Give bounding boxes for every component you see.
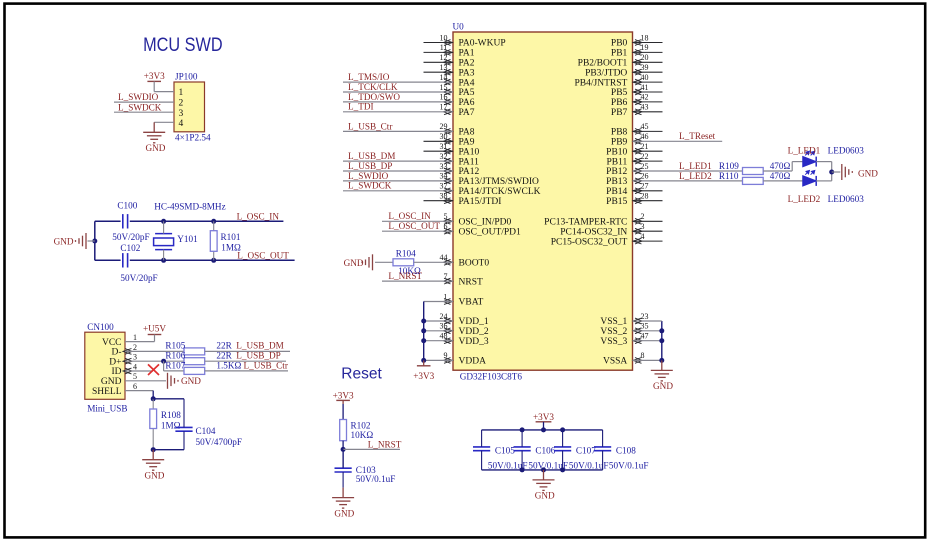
junction L_NRST — [341, 447, 346, 452]
junction bottom bus — [520, 467, 525, 472]
U0 pin 33 direction glyph — [444, 168, 453, 174]
svg-text:PA13/JTMS/SWDIO: PA13/JTMS/SWDIO — [459, 177, 540, 187]
U0 pin 29 direction glyph — [444, 129, 453, 135]
svg-text:VCC: VCC — [102, 338, 122, 348]
U0 pin 28 direction glyph — [633, 198, 642, 204]
svg-text:PB0: PB0 — [611, 39, 628, 49]
resistor R110 — [743, 177, 764, 184]
U0 pin 24 direction glyph — [444, 318, 453, 324]
U0 pin 31 stub wire — [424, 150, 454, 152]
U0 pin 12 direction glyph — [444, 59, 453, 65]
wire +3V3 to R102 — [342, 400, 344, 404]
svg-text:3: 3 — [641, 222, 645, 231]
junction R101 bottom — [211, 258, 216, 263]
wire CN100 ID stub — [125, 370, 153, 372]
U0 pin 41 stub wire — [633, 91, 663, 93]
wire L_USB_DM to U0 pin 32 — [343, 160, 453, 162]
U0 pin 12 stub wire — [424, 61, 454, 63]
svg-text:2: 2 — [133, 343, 137, 352]
svg-text:PA7: PA7 — [459, 108, 475, 118]
svg-text:PA10: PA10 — [459, 147, 480, 157]
svg-text:C106: C106 — [535, 446, 555, 456]
svg-text:PB4/JNTRST: PB4/JNTRST — [575, 78, 628, 88]
resistor R102 — [340, 420, 347, 441]
svg-text:R105: R105 — [165, 341, 185, 351]
capacitor C104 — [175, 427, 192, 431]
svg-text:GND: GND — [653, 381, 673, 391]
ground GND at C103 — [332, 488, 354, 509]
wire JP100 pin 4 to ground — [154, 121, 174, 123]
wire L_TDI to U0 pin 17 — [343, 111, 453, 113]
U0 pin 2 stub wire — [633, 220, 663, 222]
U0 pin 32 direction glyph — [444, 158, 453, 164]
ground GND at VSS — [651, 360, 673, 381]
svg-text:OSC_IN/PD0: OSC_IN/PD0 — [459, 218, 512, 228]
U0 pin 40 direction glyph — [633, 79, 642, 85]
svg-text:NRST: NRST — [459, 277, 483, 287]
wire L_NRST to U0 pin 7 — [382, 280, 453, 282]
U0 pin 44 direction glyph — [444, 259, 453, 265]
svg-text:L_SWDCK: L_SWDCK — [118, 102, 162, 112]
svg-text:470Ω: 470Ω — [770, 161, 791, 171]
junction VSS rail — [659, 358, 664, 363]
wire CN100 SHELL down — [125, 390, 153, 392]
svg-text:8: 8 — [641, 351, 645, 360]
power +3V3 at VDDA — [423, 360, 425, 365]
svg-text:L_TDI: L_TDI — [348, 102, 374, 112]
wire L_TMS/IO to U0 pin 14 — [343, 81, 453, 83]
svg-text:PB15: PB15 — [606, 197, 627, 207]
wire +3V3 stem to top bus — [543, 422, 545, 430]
svg-text:R108: R108 — [161, 410, 181, 420]
U0 pin 45 direction glyph — [633, 129, 642, 135]
junction bottom bus — [541, 467, 546, 472]
U0 pin 14 direction glyph — [444, 79, 453, 85]
svg-text:L_LED2: L_LED2 — [788, 194, 821, 204]
junction Y101 bottom — [161, 258, 166, 263]
svg-text:+U5V: +U5V — [143, 324, 166, 334]
U0 pin 48 direction glyph — [444, 338, 453, 344]
svg-text:PA1: PA1 — [459, 49, 475, 59]
svg-text:VDD_3: VDD_3 — [459, 337, 489, 347]
svg-text:PA15/JTDI: PA15/JTDI — [459, 197, 502, 207]
CN100 pin 3 direction glyph — [123, 358, 132, 364]
resistor R107 — [184, 367, 205, 374]
svg-text:VSSA: VSSA — [603, 357, 627, 367]
svg-text:41: 41 — [641, 83, 649, 92]
svg-text:L_TReset: L_TReset — [679, 131, 716, 141]
U0 pin 22 stub wire — [633, 160, 663, 162]
svg-text:D-: D- — [111, 348, 121, 358]
U0 pin 43 direction glyph — [633, 109, 642, 115]
svg-text:C105: C105 — [495, 446, 515, 456]
wire R105 to L_USB_DM — [205, 350, 290, 352]
svg-text:JP100: JP100 — [175, 72, 198, 82]
svg-text:L_SWDIO: L_SWDIO — [118, 92, 159, 102]
svg-text:PC15-OSC32_OUT: PC15-OSC32_OUT — [551, 237, 628, 247]
svg-text:PC13-TAMPER-RTC: PC13-TAMPER-RTC — [544, 218, 627, 228]
svg-text:2: 2 — [179, 99, 184, 109]
crystal Y101 — [154, 234, 174, 250]
svg-text:L_OSC_OUT: L_OSC_OUT — [388, 221, 440, 231]
junction VDD rail — [421, 328, 426, 333]
svg-text:1: 1 — [179, 88, 184, 98]
svg-text:10KΩ: 10KΩ — [351, 430, 374, 440]
svg-text:+3V3: +3V3 — [413, 371, 434, 381]
U0 pin 2 direction glyph — [633, 218, 642, 224]
resistor R101 — [213, 221, 215, 230]
U0 pin 46 direction glyph — [633, 138, 642, 144]
svg-text:46: 46 — [641, 132, 649, 141]
svg-text:PA3: PA3 — [459, 68, 475, 78]
wire R110 to LED2 — [763, 180, 803, 182]
wire PB12 to R109 — [633, 170, 743, 172]
junction SHELL top — [151, 396, 156, 401]
wire +3V3 to JP100 pin 1 — [153, 81, 155, 91]
svg-text:BOOT0: BOOT0 — [459, 259, 490, 269]
resistor R108 — [152, 399, 154, 409]
diode LED2 — [803, 176, 816, 186]
U0 pin 23 direction glyph — [633, 318, 642, 324]
svg-text:R107: R107 — [165, 360, 185, 370]
svg-text:4×1P2.54: 4×1P2.54 — [175, 132, 211, 142]
wire L_OSC_OUT to U0 pin 6 — [382, 230, 453, 232]
svg-text:VDD_2: VDD_2 — [459, 327, 489, 337]
wire R102 to C103 — [342, 441, 344, 469]
CN100 pin 4 direction glyph — [123, 368, 132, 374]
junction D+ to R107 — [161, 359, 166, 364]
power +3V3 below VDDA — [417, 365, 431, 367]
svg-text:VSS_2: VSS_2 — [600, 327, 627, 337]
svg-text:GND: GND — [535, 491, 555, 501]
svg-text:D+: D+ — [109, 357, 121, 367]
U0 pin 19 direction glyph — [633, 50, 642, 56]
svg-text:28: 28 — [641, 192, 649, 201]
svg-text:L_LED1: L_LED1 — [788, 145, 821, 155]
wire VDD branch at y340.7 — [424, 340, 453, 342]
capacitor C102 — [123, 253, 128, 267]
svg-text:GND: GND — [858, 168, 878, 178]
resistor R109 — [743, 168, 764, 175]
U0 pin 1 direction glyph — [444, 299, 453, 305]
U0 pin 3 stub wire — [633, 230, 663, 232]
U0 pin 39 stub wire — [633, 71, 663, 73]
wire cap bank bottom bus — [482, 469, 603, 471]
svg-text:PB9: PB9 — [611, 138, 628, 148]
svg-text:VDDA: VDDA — [459, 357, 487, 367]
svg-text:27: 27 — [641, 182, 649, 191]
wire VBAT to VDD rail — [424, 301, 453, 303]
svg-text:39: 39 — [641, 63, 649, 72]
wire R107 to L_USB_Ctr — [205, 370, 288, 372]
svg-text:+3V3: +3V3 — [144, 71, 165, 81]
U0 pin 25 direction glyph — [633, 168, 642, 174]
svg-text:R104: R104 — [396, 249, 416, 259]
svg-text:PA9: PA9 — [459, 138, 475, 148]
U0 pin 21 direction glyph — [633, 148, 642, 154]
U0 pin 30 direction glyph — [444, 138, 453, 144]
svg-text:42: 42 — [641, 93, 649, 102]
svg-text:PA6: PA6 — [459, 98, 475, 108]
ground at LEDs — [842, 164, 853, 180]
U0 pin 43 stub wire — [633, 111, 663, 113]
U0 pin 18 stub wire — [633, 42, 663, 44]
svg-text:22: 22 — [641, 152, 649, 161]
U0 pin 13 stub wire — [424, 71, 454, 73]
wire L_USB_DP to U0 pin 33 — [343, 170, 453, 172]
U0 pin 10 stub wire — [424, 42, 454, 44]
U0 pin 31 direction glyph — [444, 148, 453, 154]
wire L_NRST — [343, 448, 400, 450]
svg-text:L_TMS/IO: L_TMS/IO — [348, 72, 390, 82]
svg-text:PA11: PA11 — [459, 157, 480, 167]
U0 pin 6 direction glyph — [444, 228, 453, 234]
svg-text:L_USB_DM: L_USB_DM — [348, 151, 395, 161]
wire ground to R104 — [375, 261, 393, 263]
U0 pin 9 direction glyph — [444, 358, 453, 364]
wire L_TCK/CLK to U0 pin 15 — [343, 91, 453, 93]
svg-text:3: 3 — [179, 109, 184, 119]
wire VSS branch at y340.7 — [633, 340, 662, 342]
svg-text:PB10: PB10 — [606, 147, 627, 157]
svg-text:GND: GND — [181, 376, 201, 386]
U0 pin 37 direction glyph — [444, 188, 453, 194]
svg-text:L_USB_Ctr: L_USB_Ctr — [348, 121, 392, 131]
junction bottom bus — [560, 467, 565, 472]
wire cap bank top bus — [482, 429, 603, 431]
svg-text:6: 6 — [133, 382, 137, 391]
wire L_USB_Ctr to U0 pin 29 — [343, 130, 453, 132]
svg-text:43: 43 — [641, 103, 649, 112]
junction top bus — [520, 427, 525, 432]
svg-text:PA4: PA4 — [459, 78, 475, 88]
svg-text:4: 4 — [179, 119, 184, 129]
svg-text:PB8: PB8 — [611, 128, 628, 138]
capacitor C106 — [514, 447, 531, 451]
U0 pin 10 direction glyph — [444, 40, 453, 46]
U0 pin 3 direction glyph — [633, 228, 642, 234]
wire junction to LED ground — [832, 171, 841, 173]
wire SHELL branch to C104 — [153, 398, 184, 400]
svg-text:Mini_USB: Mini_USB — [87, 403, 127, 413]
svg-text:PB7: PB7 — [611, 108, 628, 118]
svg-text:Y101: Y101 — [177, 234, 198, 244]
svg-text:GD32F103C8T6: GD32F103C8T6 — [460, 371, 523, 381]
resistor R104 — [393, 259, 414, 266]
svg-text:R102: R102 — [351, 420, 371, 430]
wire VSS branch at y360.4 — [633, 359, 662, 361]
U0 pin 4 direction glyph — [633, 238, 642, 244]
U0 pin 20 stub wire — [633, 61, 663, 63]
wire PB9 to L_TReset — [633, 140, 723, 142]
svg-text:PB14: PB14 — [606, 187, 627, 197]
junction LED cathodes — [829, 170, 834, 175]
svg-text:C100: C100 — [117, 201, 137, 211]
svg-text:35: 35 — [641, 322, 649, 331]
svg-text:GND: GND — [334, 508, 354, 518]
svg-text:PA14/JTCK/SWCLK: PA14/JTCK/SWCLK — [459, 187, 541, 197]
svg-text:VBAT: VBAT — [459, 298, 484, 308]
svg-text:L_NRST: L_NRST — [388, 271, 422, 281]
svg-text:1: 1 — [133, 333, 137, 342]
svg-text:4: 4 — [133, 362, 137, 371]
svg-text:SHELL: SHELL — [92, 387, 122, 397]
svg-text:PB6: PB6 — [611, 98, 628, 108]
wire left vertical between C100 and C102 — [94, 221, 96, 260]
ground symbol at BOOT0 — [362, 254, 373, 270]
junction Y101 top — [161, 219, 166, 224]
svg-text:L_LED2: L_LED2 — [679, 171, 712, 181]
svg-text:L_USB_Ctr: L_USB_Ctr — [244, 360, 288, 370]
wire L_OSC_IN to U0 pin 5 — [382, 220, 453, 222]
svg-text:21: 21 — [641, 142, 649, 151]
U0 pin 35 direction glyph — [633, 328, 642, 334]
wire VSS vertical rail — [661, 321, 663, 360]
U0 pin 22 direction glyph — [633, 158, 642, 164]
svg-text:GND: GND — [344, 258, 364, 268]
U0 pin 30 stub wire — [424, 140, 454, 142]
U0 pin 47 direction glyph — [633, 338, 642, 344]
svg-text:PA5: PA5 — [459, 88, 475, 98]
wire C104 bottom to R108 bottom — [153, 449, 184, 451]
svg-text:R110: R110 — [719, 171, 739, 181]
no-connect X on ID pin — [148, 364, 159, 375]
U0 pin 7 direction glyph — [444, 278, 453, 284]
svg-text:L_TDO/SWO: L_TDO/SWO — [348, 92, 400, 102]
svg-text:C102: C102 — [120, 243, 140, 253]
capacitor C108 — [594, 447, 611, 451]
svg-text:22R: 22R — [216, 341, 232, 351]
wire R106 to L_USB_DP — [205, 360, 286, 362]
svg-text:50V/20pF: 50V/20pF — [120, 273, 157, 283]
svg-text:26: 26 — [641, 172, 649, 181]
U0 pin 27 direction glyph — [633, 188, 642, 194]
capacitor C105 — [473, 447, 490, 451]
wire CN100 D+ to R106 — [125, 360, 184, 362]
svg-text:GND: GND — [101, 377, 122, 387]
svg-text:GND: GND — [145, 143, 165, 153]
power +3V3 — [336, 399, 350, 401]
ground GND at JP100 — [143, 122, 165, 143]
junction R101 top — [211, 219, 216, 224]
svg-text:19: 19 — [641, 43, 649, 52]
svg-text:18: 18 — [641, 33, 649, 42]
wire LED2 to common junction — [816, 180, 832, 182]
svg-text:L_USB_DM: L_USB_DM — [236, 341, 283, 351]
svg-text:PB1: PB1 — [611, 49, 628, 59]
wire CN100 VCC to +U5V — [125, 341, 155, 343]
svg-text:LED0603: LED0603 — [828, 145, 865, 155]
svg-text:C104: C104 — [196, 426, 216, 436]
svg-text:2: 2 — [641, 212, 645, 221]
svg-text:L_NRST: L_NRST — [368, 440, 402, 450]
svg-text:R109: R109 — [719, 161, 739, 171]
svg-text:Reset: Reset — [341, 365, 382, 382]
svg-text:1.5KΩ: 1.5KΩ — [216, 360, 241, 370]
capacitor C100 — [123, 214, 128, 228]
svg-text:C108: C108 — [616, 446, 636, 456]
power +3V3 — [536, 421, 552, 423]
wire VDD vertical rail — [423, 302, 425, 361]
wire D+ junction down to R107 — [163, 361, 165, 371]
U0 pin 15 direction glyph — [444, 89, 453, 95]
U0 pin 26 direction glyph — [633, 178, 642, 184]
svg-text:VSS_3: VSS_3 — [600, 337, 627, 347]
wire VDD branch at y360.4 — [424, 359, 453, 361]
svg-text:PA8: PA8 — [459, 128, 475, 138]
U0 pin 45 stub wire — [633, 130, 663, 132]
svg-text:20: 20 — [641, 53, 649, 62]
svg-text:MCU SWD: MCU SWD — [143, 35, 223, 56]
svg-text:50V/20pF: 50V/20pF — [112, 232, 149, 242]
svg-text:PB3/JTDO: PB3/JTDO — [585, 68, 627, 78]
svg-text:CN100: CN100 — [87, 322, 114, 332]
svg-text:R106: R106 — [165, 351, 185, 361]
svg-text:PB5: PB5 — [611, 88, 628, 98]
svg-text:PA0-WKUP: PA0-WKUP — [459, 39, 506, 49]
U0 pin 20 direction glyph — [633, 59, 642, 65]
svg-text:GND: GND — [54, 236, 74, 246]
U0 pin 39 direction glyph — [633, 69, 642, 75]
U0 pin 34 direction glyph — [444, 178, 453, 184]
svg-text:L_LED1: L_LED1 — [679, 161, 712, 171]
svg-text:4: 4 — [641, 232, 645, 241]
wire L_SWDCK to U0 pin 37 — [343, 190, 453, 192]
wire CN100 GND pin to ground — [125, 380, 166, 382]
ground GND below R108 — [142, 450, 164, 471]
svg-text:50V/0.1uF: 50V/0.1uF — [609, 461, 649, 471]
U0 pin 8 direction glyph — [633, 358, 642, 364]
svg-text:PB11: PB11 — [607, 157, 628, 167]
capacitor C103 — [335, 468, 352, 472]
U0 pin 28 stub wire — [633, 200, 663, 202]
ground symbol at crystal — [76, 233, 87, 249]
svg-text:1MΩ: 1MΩ — [161, 421, 181, 431]
svg-text:L_USB_DP: L_USB_DP — [348, 161, 392, 171]
svg-text:50V/4700pF: 50V/4700pF — [196, 437, 242, 447]
U0 pin 42 direction glyph — [633, 99, 642, 105]
svg-text:VSS_1: VSS_1 — [600, 317, 627, 327]
svg-text:22R: 22R — [216, 351, 232, 361]
wire VDD branch at y321.0 — [424, 320, 453, 322]
U0 pin 38 stub wire — [424, 200, 454, 202]
wire L_SWDCK to JP100 pin 3 — [114, 111, 174, 113]
U0 pin 11 direction glyph — [444, 50, 453, 56]
svg-text:HC-49SMD-8MHz: HC-49SMD-8MHz — [154, 201, 225, 211]
svg-text:L_SWDCK: L_SWDCK — [348, 181, 392, 191]
wire PB13 to R110 — [633, 180, 743, 182]
wire VDD branch at y330.8 — [424, 330, 453, 332]
diode LED1 — [803, 157, 816, 167]
svg-text:GND: GND — [144, 471, 164, 481]
U0 pin 19 stub wire — [633, 51, 663, 53]
svg-text:U0: U0 — [453, 21, 465, 31]
svg-text:+3V3: +3V3 — [533, 412, 554, 422]
svg-text:VDD_1: VDD_1 — [459, 317, 489, 327]
wire CN100 D- to R105 — [125, 350, 184, 352]
svg-text:470Ω: 470Ω — [770, 171, 791, 181]
svg-text:5: 5 — [133, 372, 137, 381]
svg-text:PA12: PA12 — [459, 167, 480, 177]
svg-text:R101: R101 — [221, 232, 241, 242]
connector JP100 body — [174, 82, 205, 132]
U0 pin 17 direction glyph — [444, 109, 453, 115]
svg-text:LED0603: LED0603 — [828, 194, 865, 204]
svg-text:L_OSC_IN: L_OSC_IN — [388, 211, 431, 221]
U0 pin 13 direction glyph — [444, 69, 453, 75]
resistor R105 — [184, 348, 205, 355]
wire OSC top rail — [95, 220, 121, 222]
